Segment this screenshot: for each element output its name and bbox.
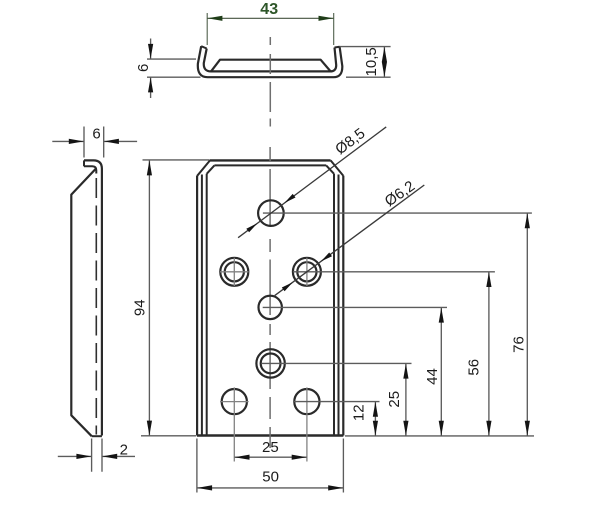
right bend line 1	[338, 175, 340, 436]
leader Ø8,5 lower arrowhead	[246, 223, 257, 232]
extension line from center hole to dim 44	[263, 306, 447, 308]
svg-text:25: 25	[386, 391, 403, 408]
dim 43 line	[207, 17, 333, 19]
dim 6 (side view) extension lines	[84, 127, 104, 158]
centerline top view	[269, 37, 271, 127]
hole center lower counterbored	[256, 349, 284, 377]
svg-text:6: 6	[135, 64, 152, 72]
hole bottom-left	[222, 389, 247, 414]
svg-text:2: 2	[120, 442, 128, 459]
side view bottom edge	[92, 435, 102, 437]
dim 43 extension lines	[207, 13, 334, 45]
extension line from bottom-right hole to dim 12	[293, 401, 380, 403]
hole mid-right cross vertical	[306, 258, 308, 286]
dim 10,5 extension lines	[340, 47, 391, 78]
hook inner	[84, 166, 96, 173]
svg-text:44: 44	[424, 368, 441, 385]
hole mid-right counterbored (Ø6,2)	[293, 258, 321, 286]
svg-text:25: 25	[262, 439, 279, 456]
leader Ø6,2 upper arrowhead	[321, 253, 332, 262]
dim 2 extension lines	[92, 439, 102, 472]
dim 94 line	[148, 160, 150, 435]
hole center upper	[259, 296, 282, 319]
hidden back face dashed	[95, 178, 97, 435]
channel inner contour	[204, 48, 336, 72]
top-right chamfer outer	[331, 160, 344, 175]
dim 76 line	[526, 213, 528, 435]
svg-text:12: 12	[350, 404, 367, 421]
dim 12 line	[374, 402, 376, 436]
dim 94 extension lines	[141, 160, 210, 436]
plate top second line	[214, 164, 326, 166]
leader Ø6,2 line	[275, 185, 425, 296]
svg-text:94: 94	[132, 299, 149, 316]
plate bottom edge	[197, 434, 344, 436]
left bend line 1	[201, 175, 203, 436]
hole top (Ø8,5)	[258, 200, 284, 226]
hook left cap	[83, 160, 85, 166]
dim 56 line	[488, 272, 490, 436]
svg-text:50: 50	[262, 469, 279, 486]
dim 44 line	[440, 308, 442, 436]
hole bottom-left cross	[220, 387, 249, 461]
dim 10,5 line	[383, 47, 385, 77]
dim 6 (top view) arrow tails	[150, 39, 152, 59]
svg-text:43: 43	[260, 1, 278, 18]
web raised platform	[211, 60, 331, 72]
svg-text:10,5: 10,5	[363, 47, 380, 76]
left outer edge	[196, 176, 198, 436]
dim 50 line	[197, 487, 343, 489]
left flange tip cap	[201, 46, 207, 48]
plate top edge	[210, 159, 331, 161]
svg-text:76: 76	[511, 336, 528, 353]
dim 25 bottom line	[235, 456, 307, 458]
svg-text:6: 6	[92, 126, 100, 143]
dim 25 right line	[405, 364, 407, 436]
dim 50 extension lines	[197, 439, 344, 493]
extension line from lower center hole to dim 25	[262, 362, 412, 364]
leader Ø8,5 line	[238, 127, 386, 238]
left bend line 2	[206, 174, 208, 436]
hole mid-left cross	[220, 258, 249, 286]
flange silhouette	[71, 169, 96, 437]
top-right chamfer inner	[326, 165, 334, 173]
plate vertical centerline	[269, 147, 271, 448]
channel outer contour	[198, 46, 342, 77]
svg-text:56: 56	[465, 359, 482, 376]
right outer edge	[342, 176, 344, 436]
hole bottom-right cross vertical	[306, 387, 308, 461]
hole bottom-right	[294, 389, 319, 414]
dim 6 (top view) extension lines	[147, 59, 201, 77]
baseline extension right	[345, 435, 534, 437]
dim 6 (side view) arrow tails	[52, 140, 84, 142]
dim 2 arrow tails	[58, 455, 92, 457]
leader Ø8,5 upper arrowhead	[285, 194, 296, 203]
hole mid-left counterbored	[220, 258, 248, 286]
right flange tip cap	[335, 46, 340, 49]
hook outer and front face	[84, 160, 102, 435]
top-left chamfer inner	[207, 165, 215, 173]
leader Ø6,2 lower arrowhead	[282, 282, 293, 291]
right bend line 2	[333, 174, 335, 436]
svg-text:Ø6,2: Ø6,2	[382, 178, 418, 211]
extension line from mid-right hole to dim 56	[293, 271, 495, 273]
top-left chamfer outer	[197, 160, 210, 175]
extension line from top hole to dim 76	[263, 212, 532, 214]
